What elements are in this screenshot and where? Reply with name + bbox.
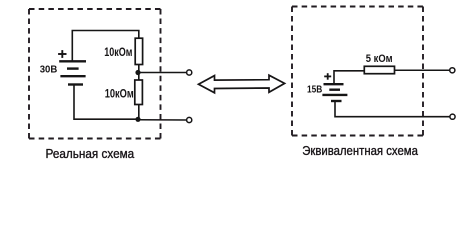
wire: battery B1 bottom lead and bottom rail to junction [74, 85, 138, 120]
label: + polarity of B2 [324, 73, 331, 80]
wire: battery B2 bottom lead and bottom rail to terminal 4 [335, 101, 450, 117]
svg-text:10кОм: 10кОм [105, 87, 134, 101]
svg-text:15В: 15В [307, 83, 323, 95]
resistor R2 (10 kOhm, lower) [135, 80, 143, 105]
resistor R3 (5 kOhm, horizontal) [364, 66, 394, 73]
svg-text:5 кОм: 5 кОм [366, 53, 393, 65]
wire: R3 right side to terminal 3 [395, 69, 450, 71]
battery B2 (15V, two cells) [322, 84, 347, 101]
node B: junction dot on bottom rail [135, 117, 140, 122]
label: + polarity of B1 [58, 50, 66, 58]
wire: R2 bottom to node B [138, 105, 140, 120]
equivalence arrow (double-headed, hollow) [199, 75, 285, 93]
wire: battery B2 + lead up and right to R3 [334, 71, 364, 84]
svg-text:30В: 30В [40, 63, 58, 75]
battery B1 (30V, two cells) [59, 61, 86, 84]
terminal 2 (open circle) [187, 117, 192, 122]
wire: node A to output terminal 1 [138, 72, 186, 74]
svg-text:Реальная схема: Реальная схема [46, 146, 135, 161]
wire: node B to output terminal 2 [138, 119, 186, 121]
terminal 3 (open circle) [450, 68, 455, 73]
wire: R1 bottom to node A [138, 65, 140, 81]
enclosure box: equivalent circuit (dashed) [292, 7, 423, 136]
svg-text:10кОм: 10кОм [104, 45, 132, 59]
wire: left circuit top rail (battery + up, across to R1 top) [72, 31, 139, 62]
resistor R1 (10 kOhm, upper) [135, 38, 142, 64]
node A: junction dot between R1 and R2 [135, 70, 140, 75]
terminal 1 (open circle) [187, 70, 192, 75]
enclosure box: real circuit (dashed) [29, 9, 161, 139]
terminal 4 (open circle) [450, 114, 455, 119]
svg-text:Эквивалентная схема: Эквивалентная схема [302, 143, 418, 158]
